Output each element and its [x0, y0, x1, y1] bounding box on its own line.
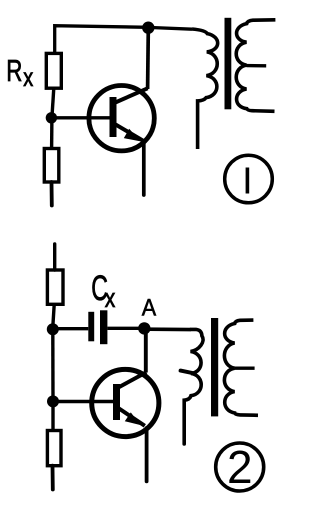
node A junction	[138, 322, 150, 334]
transformer T1 core bar	[225, 18, 232, 110]
wire emitter vertical circuit 1	[142, 143, 146, 196]
wire node to capacitor	[56, 327, 88, 330]
svg-text:R: R	[6, 53, 22, 87]
transformer T2 secondary center tap	[235, 367, 255, 370]
wire R3 to node	[53, 304, 54, 324]
node junction top circuit 1	[142, 22, 154, 34]
wire from top node to transformer primary	[148, 27, 192, 29]
node junction lower-left circuit 2	[47, 395, 59, 407]
resistor R4 (lower, circuit 2) body	[47, 431, 61, 466]
wire base lead circuit 1	[52, 116, 111, 119]
transistor Q2 emitter arrowhead	[126, 413, 140, 424]
resistor R1 (Rx) body	[46, 53, 61, 88]
wire collector vertical circuit 2	[144, 331, 148, 373]
wire left rail between nodes circuit 2	[51, 329, 55, 401]
node junction upper-left circuit 2	[47, 323, 59, 335]
wire top stub circuit 2	[53, 244, 56, 270]
transistor Q1 circle	[89, 86, 154, 151]
wire Rx to base node	[52, 88, 54, 113]
capacitor Cx right plate	[100, 310, 107, 344]
wire below R4	[51, 466, 55, 490]
transistor Q1 collector diagonal	[113, 88, 148, 103]
capacitor Cx left plate	[88, 312, 94, 342]
circuit number 1 circle	[225, 155, 273, 203]
wire base lead circuit 2	[53, 400, 113, 403]
transformer T1 secondary winding	[236, 20, 275, 112]
transistor Q2 emitter diagonal	[116, 407, 145, 426]
transformer T1 primary winding	[192, 29, 218, 149]
transistor Q1 base bar	[110, 97, 117, 137]
wire collector vertical circuit 1	[146, 29, 150, 89]
circuit number 1 digit	[246, 168, 250, 194]
transistor Q2 collector diagonal	[116, 372, 146, 389]
transformer T2 core bar	[211, 318, 218, 416]
transformer T1 secondary center tap	[247, 64, 267, 68]
svg-text:x: x	[105, 284, 116, 314]
transformer T2 secondary winding	[224, 320, 258, 415]
circuit number 2 circle	[216, 443, 264, 491]
wire node A to transformer T2 primary	[148, 327, 191, 331]
transistor Q1 emitter diagonal	[113, 123, 144, 141]
svg-text:x: x	[23, 64, 34, 92]
wire top rail circuit 1	[55, 26, 148, 54]
svg-text:A: A	[142, 293, 157, 320]
transistor Q2 circle	[92, 369, 159, 436]
wire emitter vertical circuit 2	[145, 428, 149, 481]
transformer T2 primary tap stub	[181, 371, 192, 373]
transformer T2 primary winding	[184, 329, 203, 444]
wire node to lower resistor circuit 2	[51, 401, 54, 430]
wire below lower resistor	[50, 182, 54, 206]
svg-text:2: 2	[227, 441, 253, 493]
label Rx	[6, 53, 34, 91]
label Cx	[91, 269, 115, 313]
wire base node to lower resistor	[50, 118, 54, 149]
wire capacitor to node A	[107, 327, 140, 330]
node base junction circuit 1	[46, 112, 57, 123]
transistor Q2 base bar	[113, 384, 120, 420]
resistor R2 (lower divider) body	[44, 149, 59, 183]
resistor R3 (upper, circuit 2) body	[47, 270, 63, 304]
transistor Q1 emitter arrowhead	[125, 130, 139, 141]
